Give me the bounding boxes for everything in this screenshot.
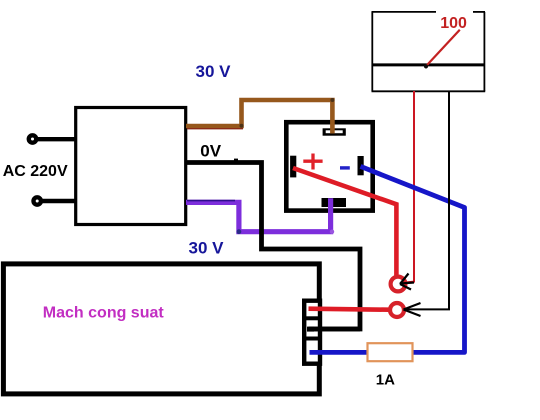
bridge rectifier BR1 box [286,122,372,210]
meter scale line [372,63,485,66]
wire red thick connector to jack [309,309,389,310]
bridge AC top terminal [323,128,346,135]
fuse F1 body [368,343,413,361]
wire terminal2 to transformer [41,199,75,203]
minus symbol [340,166,350,169]
wire thin red meter lead [403,91,414,283]
connector J1 housing [304,301,320,364]
svg-text:Mach cong suat: Mach cong suat [43,304,165,321]
meter needle [426,30,460,66]
purple wire joint dots [237,229,242,234]
svg-text:30 V: 30 V [196,62,232,81]
meter M1 box [372,12,486,91]
junction nub on 0V wire [234,159,238,162]
svg-text:1A: 1A [376,371,395,388]
wire terminal1 to transformer [36,137,75,141]
wire blue thick from minus terminal through fuse run [310,166,465,352]
power box Mach cong suat [3,264,319,394]
connector divider 2 [304,337,320,341]
wire black connector stub [309,327,361,332]
connector middle pin nub [307,327,314,332]
arrow at jack 1 [400,274,414,290]
wire brown transformer to bridge [186,100,332,134]
wire purple transformer to bridge bottom [186,198,331,232]
transformer T1 box [76,108,186,225]
svg-text:AC 220V: AC 220V [3,163,68,180]
svg-text:0V: 0V [200,142,221,161]
svg-text:100: 100 [440,15,467,32]
connector divider 1 [304,316,320,320]
svg-text:30 V: 30 V [189,238,225,257]
plus symbol [303,154,322,170]
bridge minus terminal bar [358,156,364,175]
wire red thick from plus terminal [293,168,396,277]
arrow at jack 2 [404,303,421,316]
bridge plus terminal bar [290,156,296,178]
jack red circle 1 [391,277,406,292]
brown wire joint dots [240,124,244,128]
AC terminal 2 [34,197,41,204]
wire 0V black from transformer to connector [186,163,360,330]
bridge AC bottom terminal [322,198,347,207]
meter pivot dot [424,64,428,68]
purple wire dark top edge [187,200,235,202]
wire thin black meter lead [404,91,449,309]
AC terminal 1 [29,135,36,142]
jack red circle 2 [390,303,404,317]
